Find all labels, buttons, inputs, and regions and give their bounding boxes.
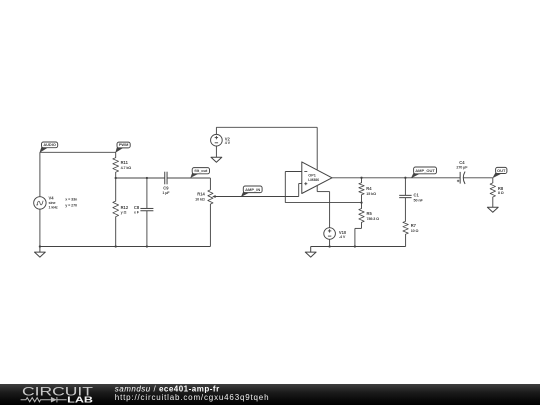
svg-text:AUDIO: AUDIO [43, 142, 56, 147]
svg-text:sine: sine [49, 201, 56, 205]
svg-text:R11: R11 [121, 160, 129, 165]
svg-text:-4 V: -4 V [339, 235, 346, 239]
svg-text:http://circuitlab.com/cgxu463q: http://circuitlab.com/cgxu463q9tqeh [115, 393, 270, 402]
svg-text:R7: R7 [411, 223, 417, 228]
svg-text:1 kHz: 1 kHz [49, 205, 58, 209]
svg-text:y Ω: y Ω [121, 211, 127, 215]
svg-text:4 V: 4 V [225, 141, 231, 145]
svg-text:x F: x F [134, 211, 140, 215]
svg-text:270 µF: 270 µF [456, 166, 468, 170]
svg-text:50 nF: 50 nF [414, 198, 424, 202]
svg-text:y = 270: y = 270 [65, 203, 77, 207]
svg-text:OUT: OUT [497, 168, 506, 173]
svg-text:V4: V4 [49, 195, 55, 200]
svg-text:C8: C8 [134, 205, 140, 210]
svg-text:10 Ω: 10 Ω [411, 229, 419, 233]
svg-text:C9: C9 [163, 185, 169, 190]
svg-text:PWM: PWM [119, 142, 129, 147]
svg-text:x = 33n: x = 33n [65, 197, 78, 201]
svg-text:789.3 Ω: 789.3 Ω [367, 217, 380, 221]
svg-text:LAB: LAB [67, 396, 93, 405]
svg-text:AMP_IN: AMP_IN [245, 187, 260, 192]
svg-text:R4: R4 [366, 186, 372, 191]
svg-text:1 µF: 1 µF [162, 191, 170, 195]
svg-text:filt_out: filt_out [194, 168, 208, 173]
svg-text:C4: C4 [459, 160, 465, 165]
svg-text:LM386: LM386 [308, 178, 319, 182]
svg-text:4.7 kΩ: 4.7 kΩ [121, 166, 132, 170]
svg-text:8 Ω: 8 Ω [498, 191, 504, 195]
svg-text:R12: R12 [121, 205, 129, 210]
svg-text:OP1: OP1 [308, 174, 316, 178]
svg-text:AMP_OUT: AMP_OUT [415, 168, 435, 173]
svg-text:C1: C1 [414, 193, 420, 198]
svg-text:R5: R5 [367, 211, 373, 216]
svg-text:15 kΩ: 15 kΩ [366, 192, 376, 196]
svg-text:10 kΩ: 10 kΩ [195, 198, 205, 202]
svg-text:R14: R14 [197, 192, 205, 197]
